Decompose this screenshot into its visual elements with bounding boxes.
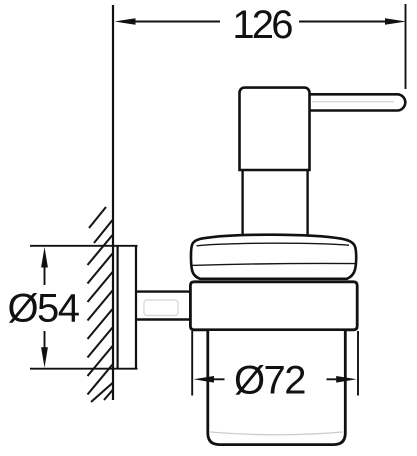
wall plate	[116, 246, 118, 369]
pump body	[240, 88, 310, 170]
pump spout	[306, 94, 405, 110]
dimension 126: lines	[134, 21, 220, 23]
pump spout inner line	[312, 101, 394, 103]
dimension O54 arrows	[41, 247, 48, 368]
dimension O72 arrows	[194, 376, 357, 383]
mounting arm top edge	[136, 290, 190, 292]
wall line	[112, 5, 114, 400]
wall hatching	[88, 207, 114, 402]
mounting arm bottom edge	[136, 318, 190, 320]
svg-text:Ø54: Ø54	[7, 287, 79, 331]
mounting arm faint detail	[144, 300, 178, 316]
cap dome	[191, 235, 356, 279]
dimension 126: left arrow	[115, 18, 407, 25]
dimension O72 left extension line	[191, 331, 193, 396]
dimension O72 right extension line	[357, 331, 359, 396]
pump neck	[241, 171, 243, 237]
wall plate top extension line	[30, 245, 138, 247]
glass tumbler	[208, 331, 345, 445]
wall plate bottom extension line	[30, 368, 138, 370]
svg-text:126: 126	[232, 3, 292, 47]
cap dome inner line 1	[197, 243, 350, 246]
dimension O54 lines	[44, 266, 46, 285]
dimension 126: right extension line	[405, 4, 407, 89]
holder ring	[190, 282, 357, 330]
dimension O72 lines	[213, 378, 225, 380]
glass inner bottom	[210, 432, 343, 435]
cap dome inner line 2	[192, 263, 356, 265]
svg-text:Ø72: Ø72	[234, 359, 305, 403]
